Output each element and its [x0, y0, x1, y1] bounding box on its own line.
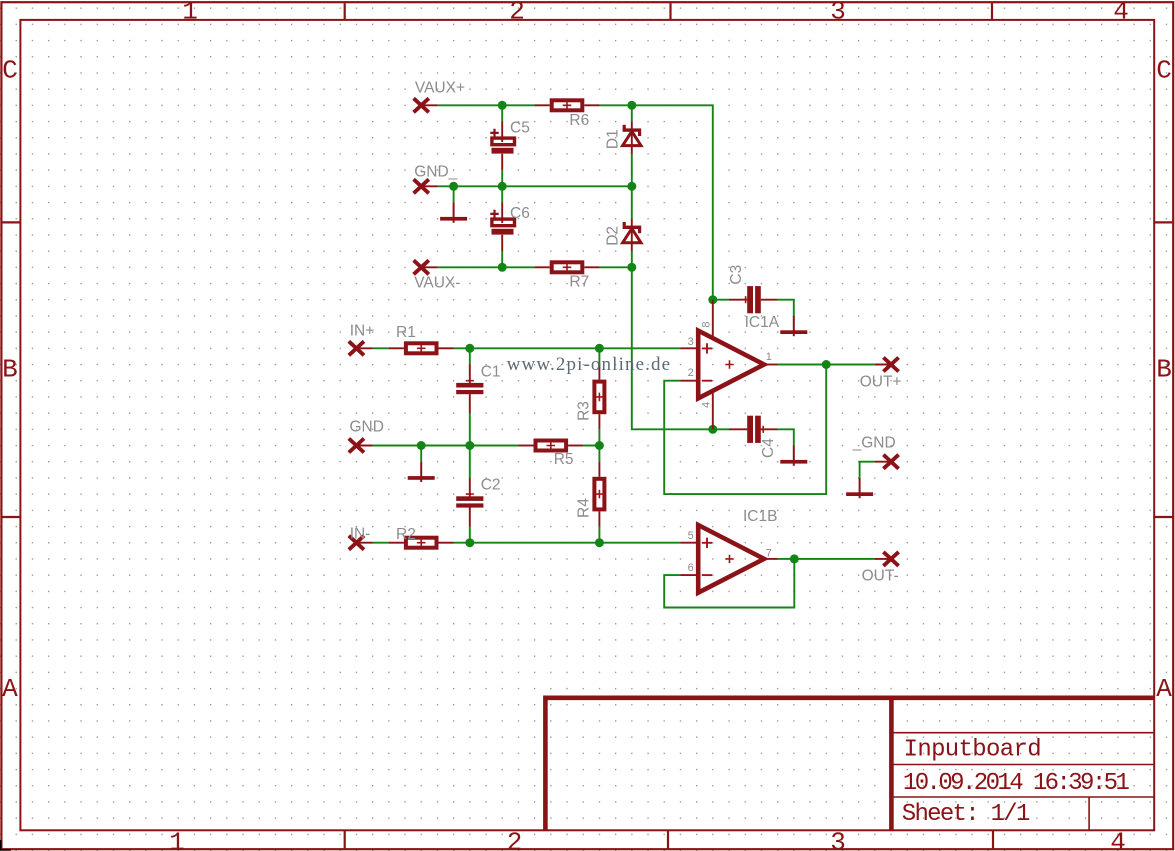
svg-text:4: 4: [1110, 828, 1126, 851]
svg-text:R6: R6: [569, 112, 589, 129]
node GND/gnd: [417, 441, 426, 450]
wire pin7 to feedback node: [778, 558, 795, 560]
wire C6 bottom: [501, 251, 503, 267]
wire pin8 node to C3: [713, 299, 729, 301]
wire C3 to gnd: [778, 300, 794, 317]
svg-text:VAUX-: VAUX-: [414, 275, 460, 292]
svg-text:IC1A: IC1A: [745, 314, 780, 331]
capacitor C1: [456, 365, 483, 414]
wire R1 to C1 node: [454, 347, 470, 349]
resistor R3: [594, 365, 604, 430]
node GND/C1/C2: [465, 441, 474, 450]
pin stub _GND: [875, 461, 891, 463]
svg-text:OUT-: OUT-: [862, 568, 899, 585]
svg-text:4: 4: [701, 402, 713, 408]
svg-text:7: 7: [766, 547, 772, 559]
wire pin1 to feedback node: [778, 364, 827, 366]
node GND_/gnd: [449, 182, 458, 191]
pin stub VAUX-: [421, 266, 437, 268]
node GND/R3/R4/R5: [595, 441, 604, 450]
wire C6 node to R7: [502, 266, 534, 268]
pin cross GND: [349, 439, 364, 453]
wire GND_ X to gnd node: [437, 185, 453, 187]
wire R4 node to pin5: [599, 542, 680, 544]
diode D2 (zener): [623, 219, 642, 251]
node IN-/C2: [465, 538, 474, 547]
svg-text:B: B: [2, 355, 18, 385]
node VAUX+/C5: [498, 101, 507, 110]
capacitor C3: [729, 286, 778, 313]
svg-text:10.09.2014 16:39:51: 10.09.2014 16:39:51: [903, 770, 1130, 797]
pin cross VAUX+: [414, 98, 429, 112]
pin stub IN+: [356, 347, 372, 349]
pin cross OUT+: [883, 358, 898, 372]
pin stub OUT-: [875, 558, 891, 560]
svg-text:2: 2: [509, 0, 525, 27]
svg-text:3: 3: [688, 336, 694, 348]
pin cross VAUX-: [414, 260, 429, 274]
capacitor C5 (polarized): [490, 122, 514, 171]
svg-text:R1: R1: [396, 324, 416, 341]
op-amp IC1B: [680, 525, 777, 593]
svg-text:A: A: [2, 674, 18, 704]
node IN+/R3: [595, 344, 604, 353]
capacitor C4: [729, 416, 778, 443]
wire IN+ X to R1: [373, 347, 389, 349]
svg-text:C6: C6: [510, 205, 530, 222]
resistor R2: [389, 538, 454, 548]
node OUT+/feedback: [822, 360, 831, 369]
svg-text:VAUX+: VAUX+: [415, 79, 465, 96]
svg-text:1: 1: [169, 828, 185, 851]
wire _GND X to gnd: [860, 462, 875, 478]
svg-text:IN-: IN-: [350, 526, 371, 543]
svg-text:Sheet: 1/1: Sheet: 1/1: [902, 801, 1031, 828]
svg-text:A: A: [1156, 674, 1172, 704]
svg-text:C: C: [1156, 56, 1172, 86]
svg-text:6: 6: [688, 562, 694, 574]
wire VAUX- X to C6 node: [437, 266, 502, 268]
svg-text:www.2pi-online.de: www.2pi-online.de: [507, 354, 670, 375]
svg-text:R2: R2: [396, 526, 416, 543]
wire feedback node to OUT- X: [794, 558, 875, 560]
wire C2 top: [469, 446, 471, 478]
wire C2 node to R4 node: [470, 542, 600, 544]
wire C2 bottom: [469, 527, 471, 543]
svg-text:8: 8: [701, 321, 713, 327]
wire gnd stub: [420, 446, 422, 462]
wire pin4 node to C4: [713, 428, 729, 430]
resistor R6: [535, 100, 600, 110]
wire IN- X to R2: [373, 542, 389, 544]
pin cross IN+: [349, 341, 364, 355]
pin stub IN-: [356, 542, 372, 544]
pin cross _GND: [883, 455, 898, 469]
svg-text:D1: D1: [605, 129, 622, 149]
svg-text:IN+: IN+: [350, 323, 375, 340]
wire R3 top: [598, 348, 600, 364]
svg-text:4: 4: [1113, 0, 1129, 27]
svg-text:2: 2: [507, 828, 523, 851]
wire pin2 feedback loop: [664, 365, 826, 494]
wire C5 bottom: [501, 170, 503, 186]
ground _GND: [846, 478, 873, 498]
wire gnd node to C node: [421, 445, 470, 447]
svg-text:C1: C1: [481, 364, 501, 381]
wire C5 top: [501, 105, 503, 121]
wire R2 to C2 node: [454, 542, 470, 544]
pin stub OUT+: [875, 364, 891, 366]
node VAUX-/D2: [627, 263, 636, 272]
svg-text:C2: C2: [481, 476, 501, 493]
svg-text:C5: C5: [510, 120, 530, 137]
ground C4 return: [780, 446, 807, 466]
svg-text:5: 5: [688, 530, 694, 542]
node GND_/D1/D2: [627, 182, 636, 191]
wire GND_ node to D2: [631, 186, 633, 218]
pin cross GND_: [414, 179, 429, 193]
frame column separators bottom band: [345, 830, 993, 848]
svg-text:Inputboard: Inputboard: [904, 736, 1042, 763]
node IN-/R4: [595, 538, 604, 547]
pin stub GND_: [421, 185, 437, 187]
wire gnd node to C5 node: [454, 185, 503, 187]
wire C5 node to R6: [502, 104, 534, 106]
pin cross IN-: [349, 536, 364, 550]
wire VAUX+ node to D1: [631, 105, 633, 121]
ground GND_ rail: [440, 203, 467, 223]
ground C3 return: [780, 316, 807, 336]
wire gnd stub: [453, 186, 455, 202]
wire pin6 feedback loop: [664, 560, 794, 608]
capacitor C2: [456, 478, 483, 527]
wire R3 bottom: [598, 429, 600, 445]
wire R3 node to pin3: [599, 347, 680, 349]
svg-text:2: 2: [688, 367, 694, 379]
resistor R1: [389, 343, 454, 353]
svg-text:1: 1: [766, 351, 772, 363]
frame row separators left band: [3, 222, 21, 517]
pin cross OUT-: [883, 552, 898, 566]
wire (corner artifact): [0, 840, 11, 850]
wire C6 top: [501, 186, 503, 202]
svg-text:R5: R5: [554, 451, 574, 468]
resistor R5: [518, 441, 583, 451]
svg-text:R3: R3: [575, 401, 592, 421]
wire R5 to R3 node: [583, 445, 599, 447]
wire R4 top: [598, 446, 600, 462]
wire C5 node to D1 node: [502, 185, 632, 187]
svg-text:R7: R7: [569, 273, 589, 290]
node GND_/C5/C6: [498, 182, 507, 191]
wire feedback node to OUT+ X: [826, 364, 875, 366]
node VAUX-/C6: [498, 263, 507, 272]
svg-text:GND: GND: [350, 419, 384, 436]
wire GND X to gnd node: [373, 445, 422, 447]
wire R6 to D1 node to pin8 node: [599, 105, 712, 299]
frame row separators right band: [1154, 222, 1172, 517]
diode D1 (zener): [623, 122, 642, 154]
node pin8/C3: [708, 295, 717, 304]
wire C4 to gnd: [778, 429, 794, 445]
wire C1 node to R3 node: [470, 347, 600, 349]
svg-text:IC1B: IC1B: [743, 508, 777, 525]
svg-text:C3: C3: [728, 265, 745, 285]
node OUT-/feedback: [790, 554, 799, 563]
svg-text:B: B: [1156, 355, 1172, 385]
svg-text:C4: C4: [760, 438, 777, 458]
svg-text:C: C: [2, 56, 18, 86]
node VAUX+/D1: [627, 101, 636, 110]
wire D2 to VAUX- node: [631, 251, 633, 267]
wire C1 top: [469, 348, 471, 364]
wire C node to R5: [470, 445, 519, 447]
op-amp IC1A: [680, 300, 777, 430]
node IN+/C1: [465, 344, 474, 353]
resistor R7: [535, 262, 600, 272]
wire C1 bottom: [469, 413, 471, 445]
svg-text:GND_: GND_: [414, 164, 457, 181]
svg-text:D2: D2: [605, 226, 622, 246]
svg-text:R4: R4: [575, 498, 592, 518]
title block thick outline: [545, 698, 1154, 831]
wire R7 to D2 node: [599, 266, 631, 268]
node pin4/C4: [708, 425, 717, 434]
resistor R4: [594, 462, 604, 527]
frame column separators top band: [345, 3, 992, 20]
svg-text:1: 1: [182, 0, 198, 27]
wire VAUX+ X to C5 node: [437, 104, 502, 106]
pin stub VAUX+: [421, 104, 437, 106]
pin stub GND: [356, 445, 372, 447]
svg-text:_GND: _GND: [852, 435, 896, 452]
wire R4 bottom: [598, 527, 600, 543]
wire D1 to GND_ node: [631, 154, 633, 186]
svg-text:OUT+: OUT+: [860, 374, 902, 391]
wire VAUX- node down to pin4 node: [632, 267, 713, 429]
svg-text:3: 3: [830, 828, 846, 851]
capacitor C6 (polarized): [490, 203, 514, 252]
svg-text:3: 3: [830, 0, 846, 27]
title block inner lines: [891, 733, 1154, 831]
ground GND rail: [408, 462, 435, 482]
